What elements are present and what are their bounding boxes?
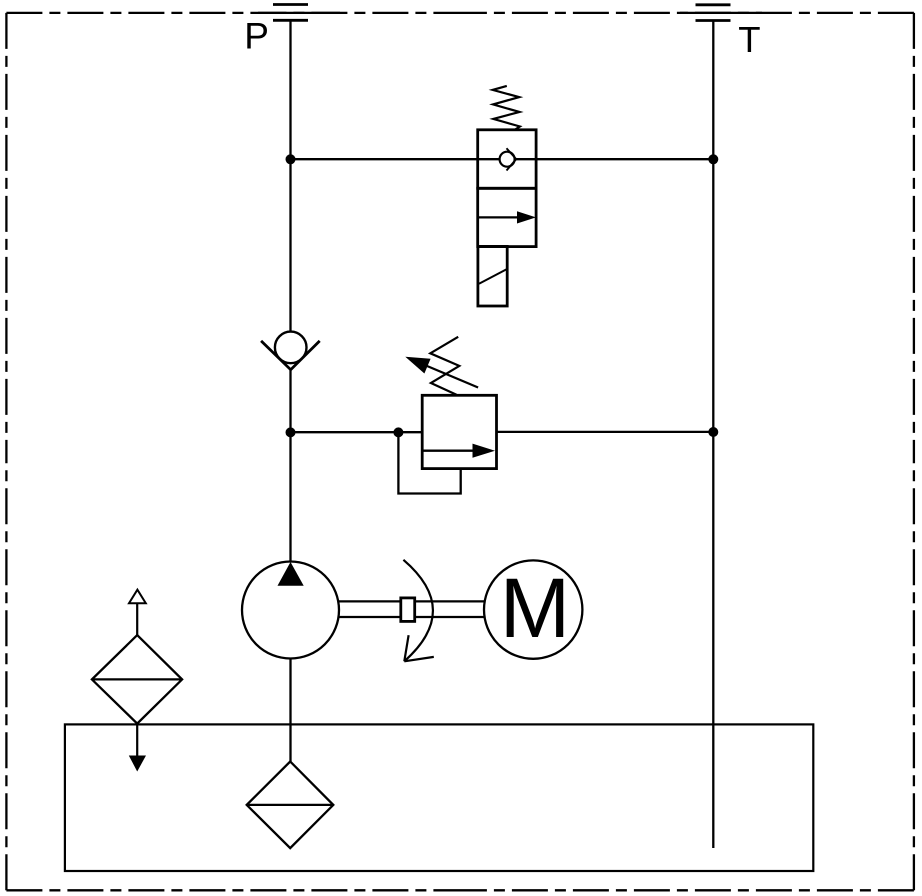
shaft coupling <box>401 598 415 622</box>
relief valve RV1 adjustment arrow <box>405 357 478 388</box>
suction strainer S1 diamond <box>247 762 334 849</box>
valve V1 solenoid box <box>478 246 507 306</box>
solenoid valve V1 body: bottom position square <box>478 188 536 246</box>
valve V1 position 1: check valve seat <box>507 148 517 170</box>
breather B1 vent triangle <box>129 590 146 604</box>
junction dot B (T line, upper) <box>708 154 718 164</box>
wire: P line from check valve to junction C <box>289 370 291 433</box>
valve V1 position 2: flow arrow <box>478 211 536 223</box>
port P marker <box>273 5 308 21</box>
junction dot A (P line, upper) <box>286 154 296 164</box>
tank / reservoir <box>65 724 813 871</box>
solenoid valve V1 body: top position square <box>478 130 536 189</box>
valve V1 return spring <box>493 86 520 130</box>
wire: P line junction A down to check valve <box>289 159 291 332</box>
svg-text:M: M <box>500 561 570 655</box>
wire: lower horizontal line right segment (relief valve outlet to T junction D) <box>497 431 714 433</box>
wire: T line from port down into tank <box>712 21 714 849</box>
breather B1 down arrow <box>129 756 146 772</box>
pump P1 circle <box>242 562 339 659</box>
wire: upper horizontal line (P junction A to T junction B) through valve V1 <box>291 158 714 160</box>
relief valve RV1 pilot line loop <box>398 432 460 493</box>
svg-text:T: T <box>738 19 760 60</box>
relief valve RV1 adjustable spring <box>430 337 459 395</box>
drive shaft lines <box>339 601 484 617</box>
pump P1 outlet triangle <box>278 562 304 586</box>
wire: pump suction line to strainer <box>289 659 291 762</box>
relief valve RV1 flow arrow <box>422 444 495 458</box>
check valve CV1 seat <box>261 341 320 370</box>
wire: P line from port to junction A <box>289 20 291 159</box>
frame solid segment under port P <box>258 12 340 14</box>
junction dot D (T line, lower) <box>708 427 718 437</box>
svg-text:P: P <box>244 16 269 57</box>
breather B1 filter diamond <box>92 635 182 724</box>
breather B1 fill line into tank <box>136 724 138 757</box>
wire: P line junction C down to pump inlet <box>289 432 291 562</box>
motor M1 circle <box>484 560 582 658</box>
port T marker <box>696 5 731 21</box>
junction dot C (P line, lower) <box>286 427 296 437</box>
rotation arrow head <box>404 635 434 661</box>
wire: lower horizontal line left segment (junction C to relief valve inlet) <box>291 431 423 433</box>
junction dot E (relief pilot tap) <box>393 427 403 437</box>
valve V1 solenoid diagonal <box>479 269 507 284</box>
valve V1 position 1: check valve circle <box>500 152 515 167</box>
frame solid segment under port T <box>680 12 762 14</box>
check valve CV1 circle <box>275 332 307 364</box>
relief valve RV1 body <box>422 395 496 468</box>
rotation direction arc <box>403 560 433 662</box>
breather B1 stem <box>136 603 138 635</box>
